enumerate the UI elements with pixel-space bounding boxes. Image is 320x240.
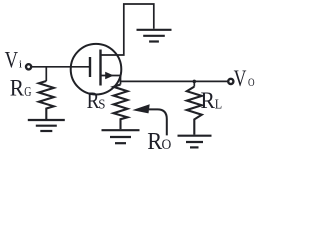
svg-text:G: G <box>24 84 31 99</box>
svg-text:O: O <box>248 77 255 89</box>
svg-text:V: V <box>234 66 247 91</box>
svg-text:R: R <box>201 88 216 113</box>
svg-text:R: R <box>147 128 163 155</box>
svg-text:L: L <box>215 96 222 111</box>
svg-text:S: S <box>98 97 105 112</box>
svg-text:R: R <box>10 75 25 100</box>
svg-text:O: O <box>162 137 172 153</box>
svg-text:V: V <box>5 48 19 73</box>
svg-text:i: i <box>19 60 23 71</box>
